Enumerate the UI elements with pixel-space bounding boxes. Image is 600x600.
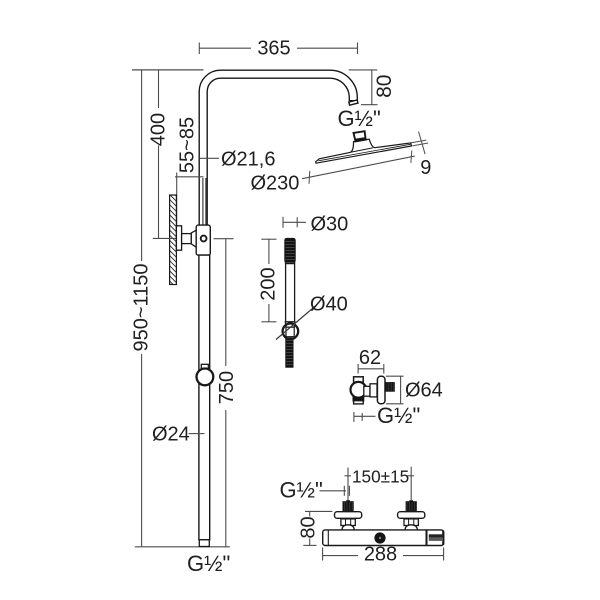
label O21,6 leader [200,157,220,159]
valve dome [405,525,417,531]
svg-text:Ø64: Ø64 [405,380,443,402]
mixer handle right cap [442,531,444,546]
slider pivot block [196,225,210,255]
mount cone [191,230,196,247]
dimension O230 leader [302,156,415,179]
wall (hatched) [170,195,177,285]
elbow wall nipple [386,383,395,392]
svg-text:Ø40: Ø40 [310,294,348,316]
svg-text:G½": G½" [187,551,230,576]
dimension 750 line [225,239,227,366]
dimension 55~85 line [176,173,178,227]
elbow dim 62 [358,368,384,370]
hand shower head (dark) [285,238,295,263]
valve flange [398,512,425,519]
svg-text:Ø30: Ø30 [311,214,349,236]
svg-text:Ø21,6: Ø21,6 [221,149,275,171]
head mound inner lines [351,148,373,152]
valve nut [404,519,418,526]
elbow holder top cap [354,377,364,382]
label O24 leader [189,433,205,435]
svg-text:400: 400 [147,113,169,146]
dimension 200 [261,238,276,240]
svg-text:G½": G½" [280,478,323,503]
mixer body [323,530,444,546]
hand shower handle [286,264,295,322]
elbow G1/2 mark [353,412,355,422]
mixer valve stem (dark) at x=348 [346,500,350,502]
svg-text:Ø230: Ø230 [251,173,300,195]
arm outlet tip band [349,100,358,105]
handle nut [285,322,295,327]
mixer centre dot [374,532,385,543]
overhead shower head disc with mound [316,139,412,163]
dimension 80 arm [349,69,378,71]
svg-text:55~85: 55~85 [176,117,198,173]
mixer valve stem (dark) at x=411 [409,500,413,502]
valve dome [342,525,354,531]
svg-text:150±15: 150±15 [352,466,409,486]
elbow flange disc [377,376,385,404]
lower riser tube [199,255,210,540]
mount cylinder [182,234,192,244]
slider knob [197,369,214,386]
mixer dim 150+-15 extension lines [347,468,349,501]
head nut collar (dark) [355,138,366,142]
svg-text:950~1150: 950~1150 [131,263,153,351]
dimension 365 [199,47,251,49]
dimension 950~1150 line [141,70,143,261]
elbow neck [364,386,370,396]
head face seam line [318,144,410,161]
hose connector inside ring [286,327,294,337]
svg-text:80: 80 [298,516,320,538]
dimension O64 [400,376,402,404]
svg-text:288: 288 [364,544,397,566]
dimension 9 [411,140,426,143]
dimension 400 line [158,70,160,108]
valve flange [335,512,362,519]
shower column riser pipe and arm (outline) [203,74,353,227]
svg-text:365: 365 [257,38,290,60]
hose [286,338,293,368]
wall mount centre line [153,237,177,239]
svg-text:750: 750 [216,371,238,404]
dimension 80 mixer [305,510,332,512]
valve nut [341,519,355,526]
inner tube lines [202,178,204,225]
dimension 288 [322,548,324,561]
bottom reference tick line [135,546,230,548]
riser end cap [199,540,209,547]
wall plate [176,226,181,250]
dimension O40 leader [276,306,316,340]
mixer body left cap line [327,530,329,545]
hose ring [283,324,299,340]
svg-text:G½": G½" [338,106,381,131]
mixer handle separator [426,530,428,545]
slider knob tab [201,364,208,370]
mixer handle dark band [429,534,443,537]
dimension O30 [283,221,306,223]
svg-text:80: 80 [373,75,396,98]
svg-text:G½": G½" [377,403,420,428]
pivot screw circle [201,236,207,242]
svg-text:Ø24: Ø24 [152,424,190,446]
svg-text:62: 62 [359,347,381,369]
head nut [354,131,366,140]
elbow holder bottom cap [354,401,364,404]
svg-text:9: 9 [420,157,431,179]
elbow holder ring [351,382,367,398]
svg-text:200: 200 [258,267,280,300]
elbow holder collar [353,397,364,401]
top reference tick line [132,69,204,71]
elbow nut [370,384,377,397]
